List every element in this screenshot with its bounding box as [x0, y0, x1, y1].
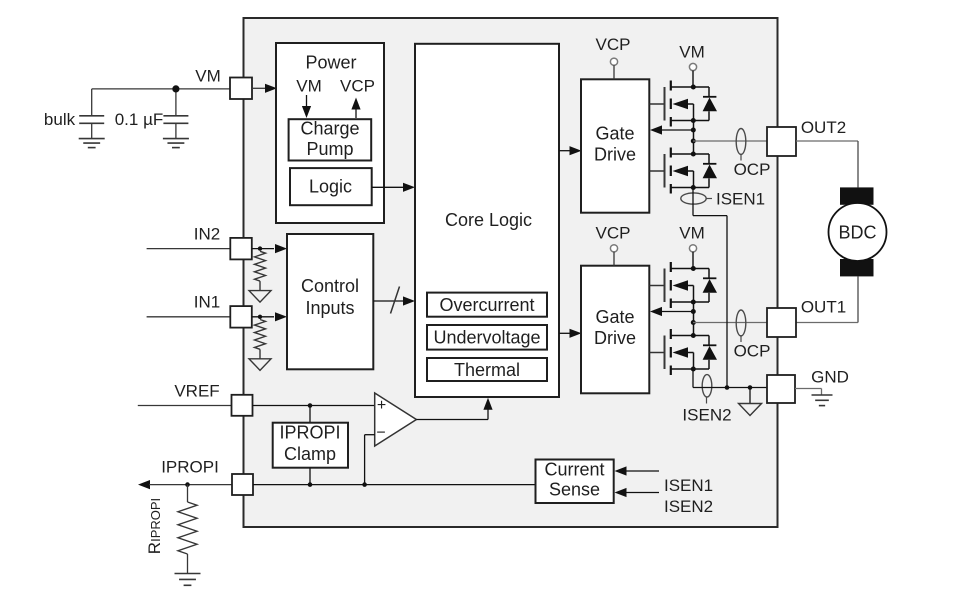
ground GND pin	[812, 394, 833, 396]
wire IPROPI Clamp to IPROPI net	[309, 468, 311, 485]
wire comparator output to Core Logic	[416, 398, 492, 420]
svg-text:VCP: VCP	[596, 35, 631, 54]
block IPROPI Clamp	[273, 423, 348, 468]
wire GND pin to ground	[795, 389, 822, 395]
block Current Sense	[536, 460, 614, 504]
pin VM	[230, 78, 252, 100]
block Power	[276, 43, 384, 223]
current sense OCP HB2	[734, 310, 771, 361]
wire ISEN2 to ground bus	[692, 369, 694, 388]
svg-text:Thermal: Thermal	[454, 360, 520, 380]
svg-text:Gate: Gate	[595, 307, 634, 327]
svg-text:VM: VM	[679, 43, 705, 62]
block Logic	[290, 168, 372, 205]
wire ISEN1 into Current Sense	[615, 466, 660, 475]
node IN1 junction	[258, 315, 262, 319]
block Overcurrent	[427, 293, 547, 317]
block Core Logic	[415, 44, 559, 397]
bus Control Inputs to Core Logic	[373, 296, 415, 305]
bus slash	[391, 287, 400, 314]
node rail junctions HB2	[691, 266, 696, 372]
svg-text:Clamp: Clamp	[284, 444, 336, 464]
IC boundary box	[244, 18, 778, 527]
wire OUT1 from rail to pin	[693, 322, 767, 324]
svg-text:GND: GND	[811, 367, 849, 386]
transistor high-side HB2	[650, 262, 710, 308]
svg-text:Charge: Charge	[300, 119, 359, 139]
svg-text:Inputs: Inputs	[305, 298, 354, 318]
wire OUT2 to motor	[796, 141, 858, 187]
wire gate feedback HB2	[650, 307, 693, 316]
pin VREF	[232, 395, 253, 416]
node VREF junction	[308, 403, 313, 408]
node rail junctions HB1	[691, 85, 696, 191]
svg-text:Current: Current	[544, 460, 604, 480]
pin OUT1	[767, 308, 796, 337]
svg-text:VCP: VCP	[340, 77, 375, 96]
pin IPROPI	[232, 474, 253, 495]
pin GND	[767, 375, 795, 403]
terminal VCP 1	[596, 35, 631, 79]
wire gate feedback HB1	[650, 125, 693, 134]
wire VM pin to Power block	[252, 84, 277, 93]
svg-text:Power: Power	[305, 52, 356, 72]
wire Charge Pump to VCP	[351, 98, 360, 119]
wire Core Logic to Gate Drive 2	[559, 329, 582, 338]
svg-text:Drive: Drive	[594, 145, 636, 165]
wire VREF node to IPROPI Clamp	[309, 406, 311, 423]
wire OUT2 from rail to pin	[693, 140, 767, 142]
svg-text:Sense: Sense	[549, 480, 600, 500]
svg-text:VM: VM	[296, 77, 322, 96]
svg-text:OUT2: OUT2	[801, 118, 846, 137]
wire comparator minus input	[365, 435, 375, 485]
ground IN2 (signal)	[249, 291, 271, 303]
transistor low-side HB2	[650, 329, 710, 375]
current sense OCP HB1	[734, 129, 771, 180]
node IPROPI comparator junction	[362, 482, 367, 487]
ground bulk	[79, 138, 105, 140]
wire to signal ground	[749, 388, 751, 404]
node ground bus ISEN1	[725, 385, 730, 390]
wire motor to OUT1	[796, 276, 858, 322]
svg-text:RIPROPI: RIPROPI	[145, 498, 164, 554]
node IPROPI resistor junction	[185, 482, 190, 487]
svg-text:Logic: Logic	[309, 177, 352, 197]
svg-text:OCP: OCP	[734, 160, 771, 179]
pin OUT2	[767, 127, 796, 156]
capacitor bulk	[79, 116, 104, 139]
svg-text:Undervoltage: Undervoltage	[433, 328, 540, 348]
wire IN2 to Control Inputs	[252, 244, 287, 253]
node IN2 junction	[258, 246, 262, 250]
wire ground bus	[693, 387, 767, 389]
svg-text:ISEN1: ISEN1	[716, 189, 765, 208]
node ground bus tap	[748, 385, 753, 390]
current sense ISEN1 ellipse	[681, 193, 712, 204]
capacitor 0.1uF	[163, 116, 188, 139]
svg-text:Overcurrent: Overcurrent	[439, 295, 534, 315]
node VM supply junction	[172, 85, 179, 92]
wire ISEN2 into Current Sense	[615, 488, 660, 497]
svg-text:Gate: Gate	[595, 124, 634, 144]
wire VM to Charge Pump	[302, 95, 311, 118]
svg-text:Core Logic: Core Logic	[445, 210, 532, 230]
wire VREF to comparator	[253, 405, 375, 407]
resistor IN1 pulldown	[255, 320, 266, 359]
terminal VM half-bridge 1	[679, 43, 705, 87]
block Control Inputs	[287, 234, 373, 369]
wire half-bridge 1 center rail	[693, 121, 695, 154]
svg-text:Drive: Drive	[594, 328, 636, 348]
svg-text:VREF: VREF	[174, 381, 219, 400]
svg-text:OCP: OCP	[734, 342, 771, 361]
svg-text:VM: VM	[679, 224, 705, 243]
wire VREF	[138, 405, 232, 407]
svg-text:−: −	[376, 425, 385, 442]
wire IPROPI external	[138, 480, 232, 489]
pin IN2	[230, 238, 252, 260]
wire IN2	[147, 248, 231, 250]
block Gate Drive 1	[581, 79, 649, 212]
terminal VCP 2	[596, 224, 631, 266]
transistor high-side HB1	[650, 81, 710, 127]
block Undervoltage	[427, 325, 547, 350]
ground RIPROPI	[175, 573, 201, 575]
svg-text:0.1 µF: 0.1 µF	[115, 110, 164, 129]
svg-text:+: +	[377, 397, 386, 414]
wire Core Logic to Gate Drive 1	[559, 146, 582, 155]
wire half-bridge 2 center rail	[693, 303, 695, 336]
wire Logic to Core Logic	[372, 183, 415, 192]
current sense ISEN2 ellipse	[702, 375, 712, 404]
diode body low-side HB1	[703, 154, 717, 188]
diode body low-side HB2	[703, 336, 717, 370]
wire ISEN1 to ground bus	[693, 188, 727, 388]
svg-text:bulk: bulk	[44, 110, 76, 129]
block Thermal	[427, 358, 547, 381]
svg-text:BDC: BDC	[838, 222, 876, 242]
pin IN1	[230, 306, 252, 328]
wire VM supply net	[92, 89, 230, 116]
motor BDC	[829, 187, 887, 276]
node IPROPI clamp junction	[308, 482, 313, 487]
svg-text:IN2: IN2	[194, 224, 220, 243]
resistor IN2 pulldown	[255, 251, 266, 290]
svg-text:IPROPI: IPROPI	[279, 423, 340, 443]
diode body high-side HB2	[703, 269, 717, 303]
svg-text:OUT1: OUT1	[801, 298, 846, 317]
svg-text:ISEN1: ISEN1	[664, 476, 713, 495]
svg-text:VCP: VCP	[596, 224, 631, 243]
svg-text:IPROPI: IPROPI	[161, 458, 219, 477]
transistor low-side HB1	[650, 148, 710, 194]
diode body high-side HB1	[703, 87, 717, 121]
svg-text:ISEN2: ISEN2	[682, 406, 731, 425]
svg-text:ISEN2: ISEN2	[664, 497, 713, 516]
resistor RIPROPI	[178, 485, 197, 573]
op-amp comparator	[375, 393, 417, 446]
ground 0.1uF	[163, 138, 189, 140]
wire IN1 to Control Inputs	[252, 312, 287, 321]
svg-text:VM: VM	[195, 67, 221, 86]
svg-text:IN1: IN1	[194, 293, 220, 312]
wire IPROPI internal	[253, 484, 536, 486]
terminal VM half-bridge 2	[679, 224, 705, 269]
block Gate Drive 2	[581, 266, 649, 394]
wire IN1	[147, 316, 231, 318]
block Charge Pump	[289, 119, 372, 161]
ground IN1 (signal)	[249, 359, 271, 371]
svg-text:Pump: Pump	[306, 139, 353, 159]
svg-text:Control: Control	[301, 276, 359, 296]
ground signal (near GND pin)	[739, 404, 762, 416]
